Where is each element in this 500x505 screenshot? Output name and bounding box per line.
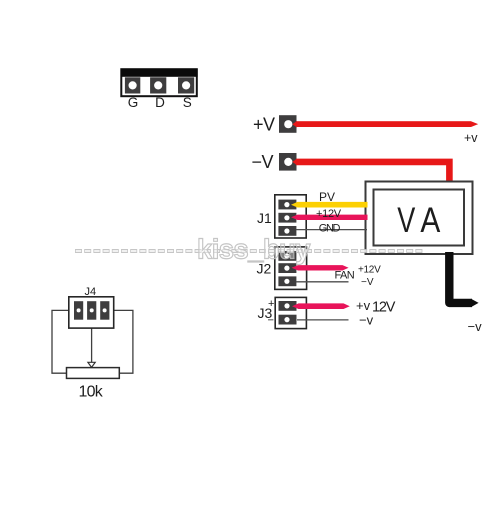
svg-text:FAN: FAN xyxy=(335,269,355,281)
svg-text:12V: 12V xyxy=(372,299,396,315)
svg-text:+12V: +12V xyxy=(316,208,342,220)
svg-text:GND: GND xyxy=(319,222,341,234)
svg-text:kiss_buy: kiss_buy xyxy=(197,234,311,265)
svg-text:G: G xyxy=(128,95,139,110)
svg-text:−V: −V xyxy=(361,277,374,288)
svg-text:+V: +V xyxy=(253,115,275,135)
svg-text:−V: −V xyxy=(252,152,274,172)
svg-text:+12V: +12V xyxy=(358,264,381,275)
svg-text:−: − xyxy=(268,315,274,327)
svg-text:10k: 10k xyxy=(79,383,104,400)
svg-text:A: A xyxy=(420,200,440,240)
svg-text:S: S xyxy=(183,95,192,110)
svg-text:V: V xyxy=(397,200,415,241)
svg-text:D: D xyxy=(155,95,165,110)
svg-text:PV: PV xyxy=(319,190,335,204)
svg-text:+v: +v xyxy=(464,131,478,145)
svg-text:J4: J4 xyxy=(85,286,97,298)
svg-text:+: + xyxy=(268,298,274,310)
svg-text:−v: −v xyxy=(359,313,374,328)
svg-text:+v: +v xyxy=(356,298,371,313)
svg-text:J1: J1 xyxy=(257,210,272,226)
svg-text:−v: −v xyxy=(468,319,483,334)
